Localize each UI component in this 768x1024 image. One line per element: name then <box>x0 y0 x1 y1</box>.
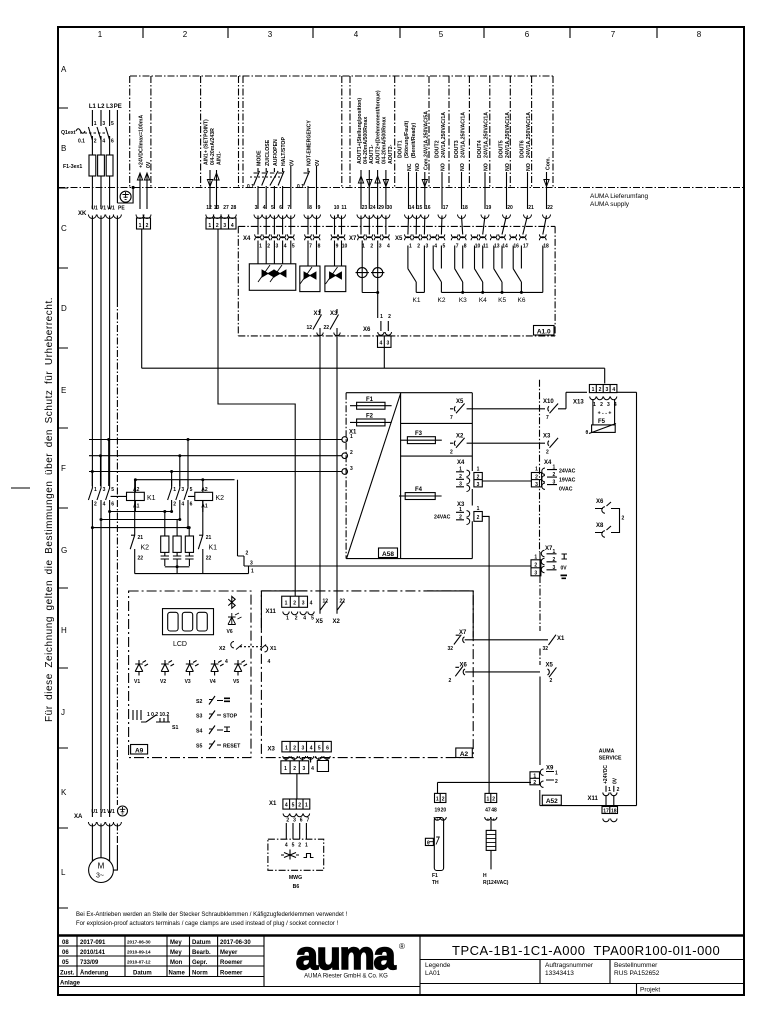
svg-text:7: 7 <box>450 415 453 421</box>
svg-text:AIN1-: AIN1- <box>217 151 223 165</box>
svg-text:AUMA Riester GmbH & Co. KG: AUMA Riester GmbH & Co. KG <box>304 974 388 980</box>
svg-text:24V/1A,250VAC/1A: 24V/1A,250VAC/1A <box>484 112 490 158</box>
svg-text:MODE: MODE <box>257 150 263 166</box>
svg-text:2: 2 <box>492 797 495 803</box>
svg-text:K5: K5 <box>498 297 506 304</box>
wires breaker to fuses <box>92 140 109 155</box>
svg-text:J: J <box>61 708 65 717</box>
svg-text:DOUT2: DOUT2 <box>435 140 441 158</box>
legend cells <box>420 960 744 996</box>
svg-text:0V: 0V <box>290 159 296 166</box>
svg-text:Roemer: Roemer <box>220 960 243 966</box>
svg-text:V2: V2 <box>160 679 166 685</box>
A58 box <box>346 393 472 559</box>
L1 L2 L3 PE labels <box>89 104 122 110</box>
svg-text:1 0 2 10.2: 1 0 2 10.2 <box>147 712 169 718</box>
svg-text:2: 2 <box>417 244 420 250</box>
svg-text:10: 10 <box>334 205 340 211</box>
svg-text:6: 6 <box>111 502 114 508</box>
svg-text:7: 7 <box>611 30 616 39</box>
svg-text:3: 3 <box>387 341 390 347</box>
svg-text:4: 4 <box>310 601 313 607</box>
svg-text:3: 3 <box>553 480 556 486</box>
svg-text:0/4-20mA/243R: 0/4-20mA/243R <box>210 128 216 165</box>
svg-text:A: A <box>61 65 67 74</box>
svg-text:PE: PE <box>114 104 122 110</box>
svg-text:3: 3 <box>426 244 429 250</box>
svg-text:Änderung: Änderung <box>80 970 109 977</box>
svg-text:2: 2 <box>293 766 296 772</box>
svg-text:2: 2 <box>622 516 625 522</box>
svg-text:NO: NO <box>484 163 490 171</box>
svg-text:4: 4 <box>284 244 287 250</box>
K1 output contact <box>408 246 425 293</box>
thyristor unit 1 <box>249 241 295 291</box>
svg-text:3: 3 <box>553 565 556 571</box>
svg-text:1: 1 <box>286 616 289 622</box>
svg-text:24: 24 <box>370 205 376 211</box>
svg-text:F: F <box>61 464 66 473</box>
svg-text:W1: W1 <box>107 206 115 212</box>
svg-text:S1: S1 <box>172 725 178 731</box>
svg-text:Norm: Norm <box>192 971 208 977</box>
svg-text:2017-091: 2017-091 <box>80 940 106 946</box>
svg-text:A2: A2 <box>460 751 469 758</box>
svg-text:Mon: Mon <box>170 960 183 966</box>
svg-text:1: 1 <box>139 223 142 229</box>
svg-text:Roemer: Roemer <box>220 971 243 977</box>
aux bottom rail <box>135 566 249 574</box>
svg-text:24V/1A,250VAC/1A: 24V/1A,250VAC/1A <box>526 112 532 158</box>
svg-text:6: 6 <box>111 139 114 145</box>
svg-text:27: 27 <box>223 205 229 211</box>
thyristor unit 3 <box>325 241 346 292</box>
svg-text:1: 1 <box>487 797 490 803</box>
svg-text:4: 4 <box>387 244 390 250</box>
svg-text:S2: S2 <box>196 699 202 705</box>
wires XA to motor <box>92 824 109 862</box>
svg-text:18: 18 <box>462 205 468 211</box>
svg-text:0.1: 0.1 <box>247 184 254 190</box>
X4 pin numbers <box>259 244 347 250</box>
svg-text:17: 17 <box>523 244 529 250</box>
svg-text:2: 2 <box>94 502 97 508</box>
H heater connector <box>485 793 497 820</box>
svg-text:4: 4 <box>612 387 615 393</box>
24VDC wires + arrows <box>140 174 147 209</box>
svg-text:2: 2 <box>298 843 301 849</box>
svg-text:auma: auma <box>296 934 397 978</box>
svg-text:4: 4 <box>434 244 437 250</box>
X4 hooks row <box>255 234 345 240</box>
svg-text:18: 18 <box>611 808 617 814</box>
svg-text:B: B <box>61 144 66 153</box>
svg-text:Bei Ex-Antrieben werden an Ste: Bei Ex-Antrieben werden an Stelle der St… <box>76 912 347 918</box>
svg-text:21: 21 <box>528 205 534 211</box>
svg-text:1: 1 <box>436 797 439 803</box>
XK terminal row hooks <box>136 215 551 219</box>
svg-text:2: 2 <box>94 139 97 145</box>
svg-text:1: 1 <box>477 467 480 473</box>
svg-text:9: 9 <box>318 205 321 211</box>
svg-text:+ - - +: + - - + <box>598 411 612 417</box>
svg-text:3: 3 <box>181 487 184 493</box>
svg-text:5: 5 <box>292 843 295 849</box>
svg-text:2: 2 <box>533 780 536 786</box>
svg-text:NO: NO <box>441 163 447 171</box>
K1 aux NC contact <box>198 501 203 574</box>
MWG pulse symbol <box>304 854 314 858</box>
svg-text:2: 2 <box>555 779 558 785</box>
svg-text:17: 17 <box>443 205 449 211</box>
bus wires to K area <box>89 440 342 472</box>
svg-text:+24VDC/Imax=100mA: +24VDC/Imax=100mA <box>139 115 145 168</box>
fuses F1-3ex1 <box>89 155 113 176</box>
svg-text:1: 1 <box>535 467 538 473</box>
wires fuses to XK <box>92 176 109 209</box>
svg-text:NOT-EMERGENCY: NOT-EMERGENCY <box>307 120 313 166</box>
svg-text:Com.: Com. <box>546 156 552 170</box>
svg-text:TPCA-1B1-1C1-A000 TPA00R100-0: TPCA-1B1-1C1-A000 TPA00R100-0I1-000 <box>452 943 720 958</box>
svg-text:5: 5 <box>443 244 446 250</box>
svg-text:X1: X1 <box>270 646 276 652</box>
svg-text:C: C <box>61 224 67 233</box>
svg-text:28: 28 <box>231 205 237 211</box>
PE earth symbol bottom <box>118 806 128 816</box>
svg-text:Auftragsnummer: Auftragsnummer <box>545 962 594 969</box>
DOUT6 labels <box>520 112 533 171</box>
24V terminal box 1|2 <box>137 218 151 229</box>
svg-text:13: 13 <box>494 244 500 250</box>
svg-text:V3: V3 <box>185 679 191 685</box>
K2 output contact <box>433 246 441 293</box>
coil feed rail <box>135 479 235 481</box>
AIN wire down to X11 <box>218 230 295 597</box>
svg-text:2: 2 <box>449 678 452 684</box>
svg-text:2: 2 <box>183 30 188 39</box>
svg-text:4: 4 <box>263 205 266 211</box>
svg-text:RESET: RESET <box>223 744 241 750</box>
svg-text:8: 8 <box>464 244 467 250</box>
H heater element <box>486 819 496 870</box>
svg-text:AOUT2-: AOUT2- <box>388 144 394 164</box>
AOUT wires + arrows <box>361 170 386 209</box>
svg-text:TH: TH <box>432 880 439 886</box>
svg-text:SERVICE: SERVICE <box>599 756 622 762</box>
svg-text:1: 1 <box>592 387 595 393</box>
svg-text:733/09: 733/09 <box>80 960 99 966</box>
svg-text:5: 5 <box>190 487 193 493</box>
svg-text:X6: X6 <box>363 327 371 333</box>
svg-text:2: 2 <box>286 818 289 824</box>
svg-text:K1: K1 <box>209 545 218 552</box>
svg-text:22: 22 <box>547 205 553 211</box>
svg-text:2010/141: 2010/141 <box>80 950 106 956</box>
svg-text:(Störung/Fault): (Störung/Fault) <box>404 121 410 158</box>
wire stubs terminals to connectors <box>258 216 547 235</box>
svg-text:1: 1 <box>94 487 97 493</box>
title block top bar <box>58 934 744 937</box>
current sensor circles <box>356 241 385 319</box>
svg-text:A1: A1 <box>133 504 140 510</box>
svg-text:4: 4 <box>285 803 288 809</box>
svg-text:8: 8 <box>697 30 702 39</box>
svg-text:ZU/CLOSE: ZU/CLOSE <box>265 139 271 166</box>
wires to MWG unit <box>286 823 306 839</box>
svg-text:X4: X4 <box>544 460 552 466</box>
svg-text:2: 2 <box>546 450 549 456</box>
X4 link wire <box>482 480 531 482</box>
cable box verticals <box>130 76 553 187</box>
svg-text:08: 08 <box>62 940 69 946</box>
svg-text:7: 7 <box>307 818 310 824</box>
svg-text:DOUT6: DOUT6 <box>520 140 526 158</box>
svg-text:1: 1 <box>251 569 254 575</box>
svg-text:Zust.: Zust. <box>60 971 75 977</box>
svg-text:X11: X11 <box>266 609 277 615</box>
svg-text:47: 47 <box>485 808 491 814</box>
svg-text:XK: XK <box>78 211 87 217</box>
svg-text:LA01: LA01 <box>425 970 441 977</box>
svg-text:2: 2 <box>617 787 620 793</box>
svg-text:3: 3 <box>302 601 305 607</box>
svg-text:2: 2 <box>534 562 537 568</box>
svg-text:8: 8 <box>318 244 321 250</box>
svg-text:AUMA supply: AUMA supply <box>590 201 630 208</box>
svg-text:1: 1 <box>208 223 211 229</box>
svg-text:V1: V1 <box>134 679 140 685</box>
svg-text:48: 48 <box>491 808 497 814</box>
svg-text:3: 3 <box>534 570 537 576</box>
svg-text:3: 3 <box>379 244 382 250</box>
svg-text:0V: 0V <box>315 159 321 166</box>
svg-text:S4: S4 <box>196 729 202 735</box>
svg-text:23: 23 <box>362 205 368 211</box>
svg-text:11: 11 <box>341 205 347 211</box>
motor M 3~ <box>89 858 114 883</box>
svg-text:5: 5 <box>111 487 114 493</box>
F1 TH connector <box>434 793 446 820</box>
svg-text:2: 2 <box>600 402 603 408</box>
svg-text:X2: X2 <box>219 646 225 652</box>
svg-text:2: 2 <box>246 551 249 557</box>
svg-text:Für diese Zeichnung gelten die: Für diese Zeichnung gelten die Bestimmun… <box>44 297 55 722</box>
X13 side wire <box>566 391 637 393</box>
K1 coil <box>127 487 156 510</box>
svg-text:14: 14 <box>409 205 415 211</box>
svg-text:HALT/STOP: HALT/STOP <box>281 137 287 166</box>
K2 coil <box>195 487 224 510</box>
svg-text:1: 1 <box>285 601 288 607</box>
MWG magnet symbol <box>281 850 299 860</box>
svg-text:6: 6 <box>326 746 329 752</box>
svg-text:5: 5 <box>439 30 444 39</box>
thyristor unit 2 <box>300 241 320 292</box>
svg-text:3: 3 <box>303 766 306 772</box>
svg-text:30: 30 <box>387 205 393 211</box>
svg-text:0.1: 0.1 <box>297 184 304 190</box>
svg-text:24VAC: 24VAC <box>434 515 451 521</box>
svg-text:3: 3 <box>102 121 105 127</box>
svg-text:3: 3 <box>607 402 610 408</box>
snubber resistors <box>161 510 194 552</box>
svg-text:1: 1 <box>285 746 288 752</box>
DOUT2 labels <box>435 112 448 171</box>
svg-text:1: 1 <box>305 843 308 849</box>
svg-text:6: 6 <box>300 818 303 824</box>
MWG link wire <box>296 774 298 799</box>
XK power hooks <box>88 215 96 219</box>
svg-text:22: 22 <box>206 556 212 562</box>
svg-text:16: 16 <box>513 244 519 250</box>
X5 plug contact <box>320 600 327 614</box>
svg-text:2: 2 <box>370 244 373 250</box>
svg-text:X5: X5 <box>395 236 403 242</box>
svg-text:24V/1A,250VAC/1A: 24V/1A,250VAC/1A <box>505 112 511 158</box>
svg-text:A9: A9 <box>135 747 144 754</box>
svg-text:Com.24V/1A,250VAC/5A: Com.24V/1A,250VAC/5A <box>423 111 429 170</box>
svg-text:X6: X6 <box>596 499 604 505</box>
svg-text:5: 5 <box>271 205 274 211</box>
cable box top rail <box>130 75 553 77</box>
svg-text:12: 12 <box>323 599 329 605</box>
svg-text:K3: K3 <box>459 297 467 304</box>
24VDC+ feed wire to X13 rail <box>141 230 143 369</box>
svg-text:9: 9 <box>336 244 339 250</box>
svg-text:K2: K2 <box>438 297 446 304</box>
svg-text:K1: K1 <box>413 297 421 304</box>
svg-text:4: 4 <box>103 502 106 508</box>
bus drops to phases <box>92 440 108 487</box>
K3 output contact <box>455 246 465 294</box>
row ticks left <box>58 108 68 908</box>
svg-text:5: 5 <box>311 616 314 622</box>
svg-text:4: 4 <box>102 139 105 145</box>
row letters <box>61 65 67 877</box>
svg-text:RUS PA152652: RUS PA152652 <box>614 970 660 977</box>
K1 contactor poles <box>88 486 109 502</box>
svg-text:3: 3 <box>255 205 258 211</box>
svg-text:NO: NO <box>460 163 466 171</box>
svg-text:1: 1 <box>284 766 287 772</box>
svg-text:1: 1 <box>305 803 308 809</box>
A2 box <box>261 591 473 758</box>
svg-text:H: H <box>483 873 487 879</box>
svg-text:M: M <box>98 862 105 871</box>
svg-text:2: 2 <box>599 387 602 393</box>
bluetooth symbol <box>228 596 235 608</box>
svg-text:2: 2 <box>267 244 270 250</box>
svg-text:A2: A2 <box>133 487 140 493</box>
service boundary right <box>636 392 638 805</box>
svg-text:1: 1 <box>380 314 383 320</box>
svg-text:+24VDC: +24VDC <box>603 765 609 784</box>
svg-text:21: 21 <box>206 535 212 541</box>
svg-text:2: 2 <box>350 450 353 456</box>
svg-text:H: H <box>61 626 67 635</box>
svg-text:1: 1 <box>553 465 556 471</box>
svg-text:K6: K6 <box>518 297 526 304</box>
svg-text:θ: θ <box>427 841 430 847</box>
svg-text:20: 20 <box>441 808 447 814</box>
svg-text:X4: X4 <box>457 460 465 466</box>
svg-text:NC: NC <box>407 163 413 171</box>
svg-text:MWG: MWG <box>289 875 302 881</box>
column ticks top <box>143 27 657 38</box>
svg-text:0V: 0V <box>561 566 568 572</box>
svg-text:4: 4 <box>231 223 234 229</box>
svg-text:2017-06-30: 2017-06-30 <box>220 940 251 946</box>
svg-text:X5: X5 <box>456 399 464 405</box>
MWG unit box <box>268 839 324 870</box>
svg-text:DOUT4: DOUT4 <box>477 140 483 158</box>
svg-text:1: 1 <box>593 402 596 408</box>
svg-text:1: 1 <box>608 787 611 793</box>
svg-text:Q1ext: Q1ext <box>61 130 76 136</box>
svg-text:0V: 0V <box>613 777 619 784</box>
svg-text:AIN1+ (SETPOINT): AIN1+ (SETPOINT) <box>204 119 210 165</box>
svg-text:2: 2 <box>553 557 556 563</box>
K2 pole feeds from buses <box>172 440 188 487</box>
NOT-EMERGENCY switch <box>304 166 317 209</box>
phase wires down to K1 <box>92 216 109 487</box>
svg-text:AUF/OPEN: AUF/OPEN <box>273 139 279 166</box>
XK terminal numbers <box>206 205 553 211</box>
svg-text:L3: L3 <box>106 104 114 110</box>
service box bottom <box>540 790 637 806</box>
svg-text:®: ® <box>399 942 405 951</box>
svg-text:18: 18 <box>543 244 549 250</box>
svg-text:LCD: LCD <box>173 641 187 648</box>
A9 box <box>129 591 251 758</box>
svg-text:22: 22 <box>138 556 144 562</box>
svg-text:A58: A58 <box>382 551 394 558</box>
svg-text:06: 06 <box>62 950 69 956</box>
svg-text:6: 6 <box>190 502 193 508</box>
svg-text:X8: X8 <box>596 523 604 529</box>
svg-text:4: 4 <box>354 30 359 39</box>
svg-text:4: 4 <box>303 616 306 622</box>
svg-text:Datum: Datum <box>133 971 152 977</box>
svg-text:Meyer: Meyer <box>220 950 238 956</box>
svg-text:L2: L2 <box>97 104 105 110</box>
control wire bundle 2 3 1 to X7 <box>238 480 245 566</box>
svg-text:XA: XA <box>74 814 83 820</box>
svg-text:STOP: STOP <box>223 714 238 720</box>
svg-text:2: 2 <box>173 502 176 508</box>
svg-text:Mey: Mey <box>170 950 182 956</box>
svg-text:24V/1A,250VAC/1A: 24V/1A,250VAC/1A <box>441 112 447 158</box>
svg-text:G: G <box>61 546 67 555</box>
svg-text:X11: X11 <box>588 796 599 802</box>
svg-text:0V: 0V <box>146 161 152 168</box>
PE link to boundary <box>117 188 133 204</box>
svg-text:X9: X9 <box>546 766 554 772</box>
K2 aux NC contact <box>130 480 135 574</box>
svg-text:S3: S3 <box>196 714 202 720</box>
svg-text:10: 10 <box>342 244 348 250</box>
svg-text:PE: PE <box>118 206 125 212</box>
svg-text:For explosion-proof actuators: For explosion-proof actuators terminals … <box>76 921 338 927</box>
auma logo <box>296 934 405 980</box>
svg-text:Anlage: Anlage <box>60 981 81 987</box>
svg-text:1: 1 <box>350 434 353 440</box>
svg-text:05: 05 <box>62 960 69 966</box>
A52 label <box>542 795 561 805</box>
svg-text:X7: X7 <box>459 630 467 636</box>
svg-text:X2: X2 <box>333 619 341 625</box>
svg-text:3: 3 <box>103 487 106 493</box>
